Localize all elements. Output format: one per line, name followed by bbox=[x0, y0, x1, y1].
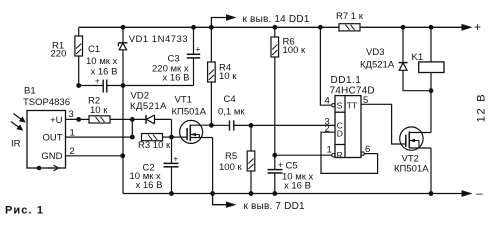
diode VD1 zener bbox=[118, 27, 127, 85]
relay K1 bbox=[419, 27, 444, 90]
svg-text:1: 1 bbox=[327, 145, 332, 156]
svg-text:D: D bbox=[337, 129, 343, 139]
svg-text:КП501А: КП501А bbox=[394, 164, 429, 175]
resistor R4 bbox=[208, 27, 216, 125]
transistor VT1 bbox=[180, 120, 213, 193]
svg-text:6: 6 bbox=[365, 144, 370, 155]
resistor R2 bbox=[89, 116, 110, 123]
svg-text:VD3: VD3 bbox=[366, 47, 384, 58]
svg-text:GND: GND bbox=[41, 151, 62, 162]
pin 3 wire bbox=[66, 118, 90, 120]
capacitor C3 bbox=[187, 27, 201, 85]
wire gnd vertical drop bbox=[122, 86, 124, 194]
svg-text:0,1 мк: 0,1 мк bbox=[218, 106, 245, 117]
pin 6 Q-bar output bbox=[361, 152, 364, 155]
svg-text:100 к: 100 к bbox=[283, 45, 306, 56]
wire R pin line bbox=[275, 154, 332, 156]
svg-text:к выв. 14 DD1: к выв. 14 DD1 bbox=[243, 14, 310, 25]
svg-text:10 к: 10 к bbox=[219, 71, 237, 82]
svg-text:х 16 В: х 16 В bbox=[284, 181, 311, 192]
svg-text:–: – bbox=[476, 186, 483, 200]
capacitor C1 bbox=[79, 76, 123, 92]
svg-text:1: 1 bbox=[70, 127, 75, 138]
pin 2 wire bbox=[66, 155, 123, 157]
svg-text:КД521А: КД521А bbox=[130, 101, 167, 112]
svg-text:S: S bbox=[337, 101, 343, 111]
svg-text:R: R bbox=[337, 150, 343, 160]
resistor R7 bbox=[339, 24, 360, 31]
junction dot gnd pin2 bbox=[120, 153, 125, 158]
svg-text:Рис. 1: Рис. 1 bbox=[5, 205, 44, 217]
svg-text:5: 5 bbox=[363, 95, 368, 106]
svg-text:4: 4 bbox=[325, 95, 330, 106]
node X vertical bbox=[131, 119, 133, 137]
svg-text:12 В: 12 В bbox=[476, 93, 488, 123]
resistor R1 bbox=[75, 27, 83, 85]
DD1.1 flip flop box bbox=[335, 96, 361, 158]
junction dot node A bbox=[76, 83, 81, 88]
svg-text:2: 2 bbox=[325, 124, 330, 135]
pin 1 wire bbox=[66, 136, 133, 138]
wire gnd node line bbox=[123, 85, 194, 87]
svg-text:C1: C1 bbox=[88, 44, 100, 55]
svg-text:+: + bbox=[474, 20, 481, 34]
node Y vertical bbox=[171, 119, 173, 163]
junction dots top rail bbox=[121, 25, 126, 30]
svg-text:+: + bbox=[278, 160, 283, 170]
svg-text:100 к: 100 к bbox=[219, 162, 242, 173]
svg-text:IR: IR bbox=[11, 139, 21, 150]
svg-text:х 16 В: х 16 В bbox=[91, 67, 118, 78]
wire bottom rail bbox=[123, 193, 464, 195]
svg-text:220: 220 bbox=[51, 49, 67, 60]
svg-text:C5: C5 bbox=[286, 161, 298, 172]
wire to pin14 DD1 bbox=[211, 18, 227, 28]
svg-text:+: + bbox=[195, 45, 200, 55]
junction dot +U bbox=[76, 117, 81, 122]
svg-text:TT: TT bbox=[347, 101, 357, 111]
diode VD3 bbox=[399, 27, 431, 90]
junction dot VD3 K1 bbox=[429, 88, 434, 93]
svg-text:х 16 В: х 16 В bbox=[163, 73, 190, 84]
svg-text:10 мк х: 10 мк х bbox=[86, 56, 118, 67]
capacitor C4 bbox=[211, 120, 233, 130]
svg-text:+: + bbox=[95, 76, 100, 85]
node plus arrow bbox=[462, 24, 473, 31]
resistor R3 bbox=[142, 134, 163, 141]
svg-text:2: 2 bbox=[70, 146, 75, 157]
svg-text:VT1: VT1 bbox=[175, 95, 192, 106]
svg-text:TSOP4836: TSOP4836 bbox=[23, 97, 70, 108]
junction dot node X bottom bbox=[130, 135, 135, 140]
resistor R6 bbox=[271, 27, 279, 155]
svg-text:к выв. 7 DD1: к выв. 7 DD1 bbox=[244, 201, 306, 212]
svg-text:КД521А: КД521А bbox=[360, 59, 395, 70]
wire to pin7 DD1 bbox=[213, 194, 227, 205]
resistor R5 bbox=[247, 125, 255, 193]
svg-text:B1: B1 bbox=[24, 86, 36, 97]
node minus arrow bbox=[462, 190, 473, 197]
svg-text:VD2: VD2 bbox=[131, 90, 149, 101]
svg-text:DD1.1: DD1.1 bbox=[331, 75, 362, 86]
svg-text:K1: K1 bbox=[412, 52, 424, 63]
junction dot R6 C5 R-pin bbox=[272, 153, 277, 158]
svg-text:3: 3 bbox=[69, 109, 74, 120]
diode VD2 bbox=[146, 115, 172, 124]
svg-text:+U: +U bbox=[50, 115, 63, 126]
pin 2 D input bbox=[321, 132, 378, 173]
junction dot gnd node bbox=[121, 83, 126, 88]
IR arrows bbox=[11, 114, 26, 131]
wire gate VT1 bbox=[172, 136, 188, 138]
svg-text:10 к: 10 к bbox=[90, 105, 108, 116]
svg-text:+: + bbox=[174, 155, 179, 164]
svg-text:VD1 1N4733: VD1 1N4733 bbox=[129, 34, 188, 45]
junction dot node Y bbox=[169, 135, 174, 140]
B1 bottom dot and arrow bbox=[37, 166, 42, 171]
wire top rail bbox=[79, 26, 339, 28]
pin 4 S input bbox=[320, 27, 332, 105]
svg-text:C4: C4 bbox=[224, 94, 236, 105]
B1 TSOP4836 box bbox=[27, 111, 66, 169]
pin 5 Q output bbox=[361, 104, 406, 144]
svg-text:R7 1 к: R7 1 к bbox=[336, 11, 364, 22]
wire top rail right of R7 bbox=[361, 26, 465, 28]
wire C4 to pin3 C bbox=[234, 124, 335, 126]
svg-text:R5: R5 bbox=[225, 151, 237, 162]
junction dot VT1 drain bbox=[209, 123, 214, 128]
capacitor C5 bbox=[268, 155, 284, 193]
svg-text:КП501А: КП501А bbox=[172, 106, 207, 117]
svg-text:х 16 В: х 16 В bbox=[136, 180, 163, 191]
junction dot node X top bbox=[130, 117, 135, 122]
capacitor C2 bbox=[164, 155, 179, 194]
junction dot R5 top bbox=[249, 123, 254, 128]
svg-text:R3 10 к: R3 10 к bbox=[138, 140, 171, 151]
svg-text:OUT: OUT bbox=[42, 133, 62, 144]
transistor VT2 bbox=[400, 91, 431, 194]
junction dots bottom rail bbox=[169, 191, 174, 196]
